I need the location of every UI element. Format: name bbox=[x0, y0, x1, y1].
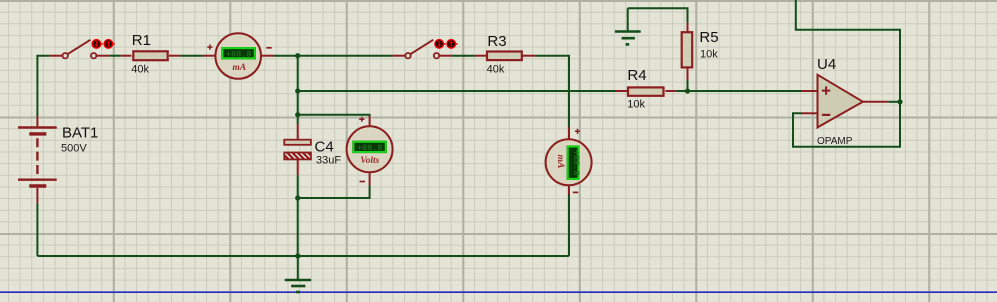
wire R5 top bbox=[628, 8, 688, 22]
wire voltmeter minus bbox=[298, 185, 370, 198]
wire left vertical top bbox=[37, 56, 49, 57]
wire R3 to corner down bbox=[535, 56, 569, 127]
svg-text:40k: 40k bbox=[487, 63, 505, 75]
capacitor C4 bbox=[284, 124, 341, 175]
node junction x298 y256 bbox=[295, 253, 300, 258]
op-amp U4 bbox=[802, 56, 889, 147]
resistor R5 (vertical) bbox=[682, 23, 719, 80]
wire battery top bbox=[36, 56, 38, 116]
svg-text:mA: mA bbox=[555, 155, 565, 169]
battery BAT1 bbox=[18, 116, 98, 203]
wire R4 to junction bbox=[676, 90, 687, 92]
node junction x298 y91 bbox=[295, 88, 300, 93]
node junction x298 y198 bbox=[295, 195, 300, 200]
svg-text:Volts: Volts bbox=[360, 156, 379, 166]
wire to voltmeter plus bbox=[298, 115, 370, 117]
svg-text:R1: R1 bbox=[132, 32, 151, 49]
wire R5 bottom to junction bbox=[687, 80, 689, 91]
wire feedback top bbox=[796, 0, 900, 102]
resistor R4 bbox=[615, 67, 676, 110]
node junction x298 y115 bbox=[295, 112, 300, 117]
resistor R1 bbox=[121, 32, 181, 75]
svg-text:40k: 40k bbox=[131, 63, 149, 75]
ammeter AM2 (rotated) bbox=[546, 127, 592, 195]
svg-text:+88.8: +88.8 bbox=[357, 143, 383, 153]
ground bottom bbox=[285, 256, 311, 292]
svg-text:R4: R4 bbox=[627, 67, 646, 84]
ground top bbox=[615, 8, 641, 44]
svg-text:mA: mA bbox=[232, 63, 246, 73]
wire AM1 to SW2 bbox=[274, 55, 392, 57]
svg-text:OPAMP: OPAMP bbox=[817, 136, 853, 147]
ammeter AM1 bbox=[203, 33, 274, 79]
wire sw1 to R1 bbox=[109, 55, 120, 57]
switch SW1 bbox=[50, 40, 115, 59]
wire R1 to AM1 bbox=[181, 55, 203, 57]
svg-text:U4: U4 bbox=[817, 56, 836, 73]
wire bottom rail bbox=[37, 255, 569, 257]
wire mid horizontal to R4 bbox=[298, 90, 616, 92]
wire junction to opamp plus bbox=[688, 90, 802, 92]
switch SW2 bbox=[392, 40, 457, 59]
svg-text:33uF: 33uF bbox=[316, 154, 341, 166]
wire battery bottom bbox=[36, 203, 38, 256]
node junction R4 R5 bbox=[685, 88, 690, 93]
svg-text:C4: C4 bbox=[315, 138, 334, 155]
svg-text:+88.8: +88.8 bbox=[571, 150, 581, 176]
node junction opamp output bbox=[897, 99, 902, 104]
node A junction x298 y56 bbox=[295, 53, 300, 58]
resistor R3 bbox=[475, 33, 535, 75]
voltmeter VM1 bbox=[347, 116, 393, 186]
svg-text:10k: 10k bbox=[700, 49, 718, 61]
wire opamp output bbox=[888, 101, 900, 103]
svg-text:R3: R3 bbox=[487, 33, 506, 50]
svg-text:BAT1: BAT1 bbox=[62, 125, 98, 142]
svg-text:500V: 500V bbox=[61, 143, 87, 155]
svg-text:+88.8: +88.8 bbox=[226, 49, 252, 59]
sheet border (blue) bbox=[0, 291, 997, 293]
svg-text:10k: 10k bbox=[627, 99, 645, 111]
wire SW2 to R3 bbox=[452, 55, 475, 57]
wire feedback bottom loop bbox=[793, 102, 900, 147]
wire node column x298 lower bbox=[297, 175, 299, 256]
svg-text:R5: R5 bbox=[699, 29, 718, 46]
wire node column x298 upper bbox=[297, 56, 299, 124]
wire AM2 bottom bbox=[568, 195, 570, 256]
